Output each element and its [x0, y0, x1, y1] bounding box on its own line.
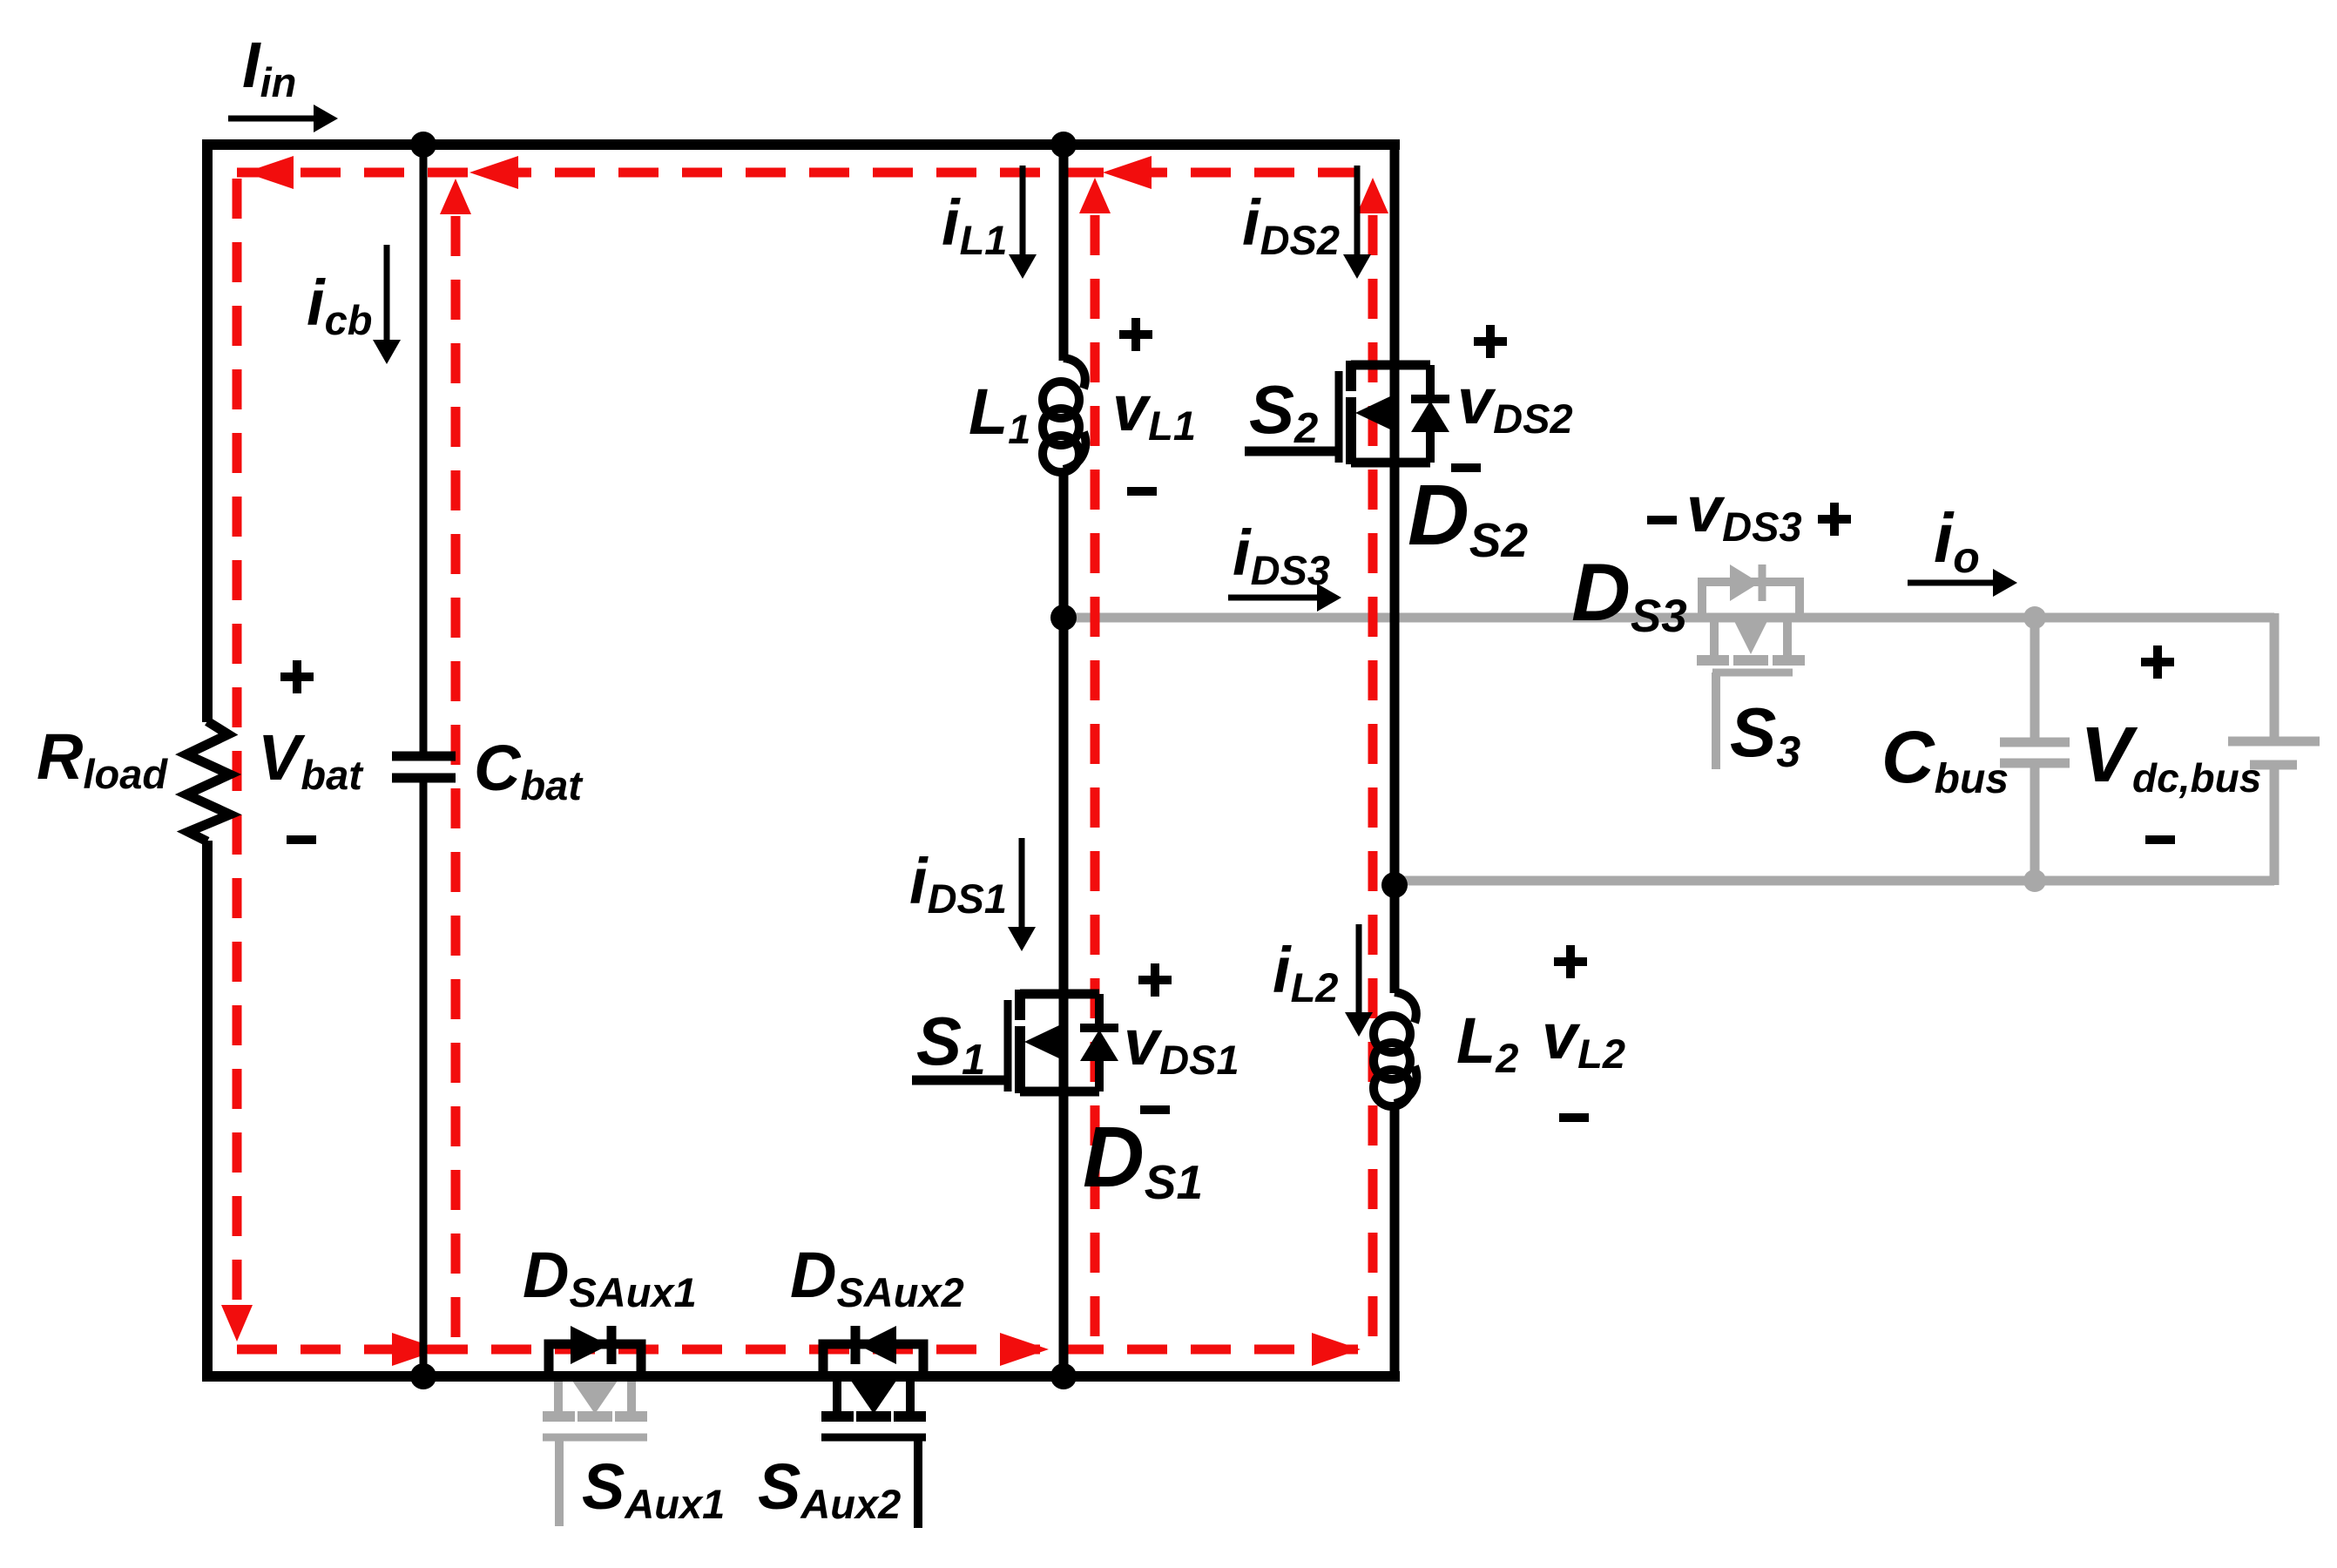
- diode D_SAux2 (pointing left): [858, 1326, 896, 1364]
- plus sign V_dc,bus: [2141, 645, 2174, 679]
- red dashed loop: left vertical segment: [233, 179, 242, 1303]
- wire C_bat branch upper: [420, 145, 428, 756]
- red arrowhead up (top of S1 branch): [1079, 178, 1111, 213]
- red arrowhead left (top, near corner): [245, 156, 294, 189]
- transistor S_Aux2 gate lead: [914, 1437, 922, 1528]
- wire C_bat branch lower: [420, 778, 428, 1376]
- arrow i_DS1: [1019, 838, 1025, 927]
- transistor S1: [1008, 990, 1099, 1093]
- arrow i_DS3: [1228, 595, 1317, 601]
- transistor S3 gate lead: [1712, 672, 1720, 769]
- transistor S_Aux1 channel and gate (gray): [554, 1376, 563, 1412]
- plus sign v_L1: [1119, 318, 1152, 351]
- node C_bus top (gray): [2023, 606, 2046, 629]
- wire gray right branch lower: [2270, 765, 2280, 885]
- arrow i_o: [1908, 580, 1993, 586]
- wire C_bus branch lower: [2030, 763, 2040, 881]
- wire S2/L2 branch upper: [1390, 139, 1400, 993]
- wire gray right branch upper (to battery): [2270, 613, 2280, 741]
- red arrowhead left (top, right of L1 node): [1103, 156, 1152, 189]
- battery V_dc,bus long plate: [2228, 737, 2320, 747]
- minus sign V_dc,bus: [2145, 835, 2175, 844]
- minus sign v_DS3: [1647, 516, 1677, 524]
- node: top bus / C_bat: [410, 132, 436, 158]
- red arrowhead up (top of S2 branch): [1357, 178, 1388, 213]
- plus sign v_DS3: [1818, 503, 1851, 536]
- red dashed loop: bottom horizontal segment: [237, 1345, 1373, 1355]
- minus sign v_DS2: [1451, 463, 1481, 472]
- minus sign v_L2: [1559, 1113, 1589, 1122]
- minus sign V_bat: [287, 835, 316, 844]
- resistor R_load: [186, 721, 230, 841]
- wire bottom bus: [202, 1371, 1400, 1382]
- wire L1/S1 branch middle: [1059, 469, 1069, 1382]
- diode D_SAux2 loop: [823, 1344, 923, 1376]
- plus sign v_DS2: [1474, 325, 1507, 358]
- red dashed loop: S2/L2 branch vertical: [1368, 215, 1378, 1349]
- red dashed loop: S1/L1 branch vertical: [1091, 215, 1100, 1349]
- wire left branch lower (below R_load): [202, 841, 213, 1382]
- diode D_S3 (on S3 loop, pointing right): [1730, 564, 1760, 601]
- arrow i_cb: [384, 245, 390, 340]
- red arrowhead right (bottom, left of C_bat): [392, 1333, 441, 1366]
- node: bottom bus / S1 branch: [1050, 1363, 1077, 1389]
- node: S2/L2 junction to gray bus: [1381, 872, 1408, 898]
- arrow i_L2: [1356, 924, 1362, 1012]
- transistor S2 gate lead: [1245, 447, 1339, 456]
- inductor L1: [1064, 358, 1085, 389]
- plus sign v_L2: [1554, 945, 1587, 978]
- red dashed loop: C_bat branch vertical: [451, 216, 461, 1339]
- capacitor C_bat: [392, 752, 456, 761]
- diode D_SAux1 loop: [549, 1344, 641, 1376]
- node: top bus / L1 branch: [1050, 132, 1077, 158]
- node: bottom bus / C_bat: [410, 1363, 436, 1389]
- wire gray mid bus (node A to Vdc,bus loop): [1064, 613, 2274, 623]
- red arrowhead right (bottom, left of S1 branch): [1000, 1333, 1049, 1366]
- capacitor C_bus plates: [2000, 738, 2070, 747]
- battery V_dc,bus short plate: [2250, 760, 2297, 770]
- red dashed loop: top horizontal segment: [237, 168, 1363, 178]
- transistor S_Aux2 channel and gate: [821, 1376, 926, 1437]
- red arrowhead down (bottom of left segment): [221, 1305, 253, 1342]
- plus sign v_DS1: [1138, 963, 1172, 997]
- minus sign v_L1: [1127, 487, 1157, 496]
- arrow i_L1: [1020, 166, 1026, 254]
- minus sign v_DS1: [1140, 1105, 1170, 1114]
- red arrowhead up (top of C_bat branch): [440, 179, 471, 214]
- inductor L2: [1395, 992, 1416, 1023]
- arrow i_DS2: [1354, 166, 1361, 254]
- body diode D_S1 (pointing up): [1080, 994, 1118, 1092]
- transistor S3 channel and gate: [1710, 618, 1719, 655]
- diode D_SAux1 (pointing right): [571, 1326, 609, 1364]
- wire S2/L2 branch lower: [1390, 1103, 1400, 1382]
- node C_bus bottom (gray): [2023, 869, 2046, 892]
- wire top bus: [202, 139, 1400, 150]
- arrow I_in: [228, 116, 314, 122]
- body diode D_S2 (pointing up): [1411, 365, 1449, 463]
- red arrowhead right (bottom, near S2 corner): [1312, 1333, 1361, 1366]
- wire left branch upper (above R_load): [202, 139, 213, 722]
- red arrowhead left (top, right of C_bat): [469, 156, 518, 189]
- node A: L1/S1 junction to gray bus: [1050, 605, 1077, 631]
- transistor S_Aux1 gate lead: [555, 1437, 564, 1526]
- plus sign V_bat: [280, 660, 314, 693]
- transistor S3 body-diode loop: [1702, 582, 1800, 618]
- wire gray bottom bus (L2 node to Vdc,bus loop): [1395, 876, 2274, 886]
- wire C_bus branch upper: [2030, 618, 2040, 742]
- transistor S1 gate lead: [912, 1076, 1008, 1085]
- transistor S2: [1339, 361, 1430, 464]
- wire L1/S1 branch upper: [1059, 139, 1069, 361]
